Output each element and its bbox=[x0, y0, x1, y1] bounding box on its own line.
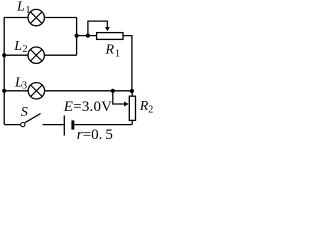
svg-text:2: 2 bbox=[148, 104, 153, 115]
svg-text:L: L bbox=[16, 0, 25, 15]
svg-text:1: 1 bbox=[115, 49, 120, 60]
svg-text:L: L bbox=[13, 39, 22, 54]
svg-text:R: R bbox=[105, 43, 115, 58]
svg-text:3: 3 bbox=[22, 81, 27, 92]
svg-text:S: S bbox=[21, 105, 28, 120]
svg-text:2: 2 bbox=[23, 44, 28, 55]
svg-text:R: R bbox=[139, 99, 149, 114]
svg-text:E=3.0V: E=3.0V bbox=[63, 99, 112, 115]
svg-text:1: 1 bbox=[26, 5, 31, 16]
svg-text:r=0. 5: r=0. 5 bbox=[77, 127, 113, 143]
